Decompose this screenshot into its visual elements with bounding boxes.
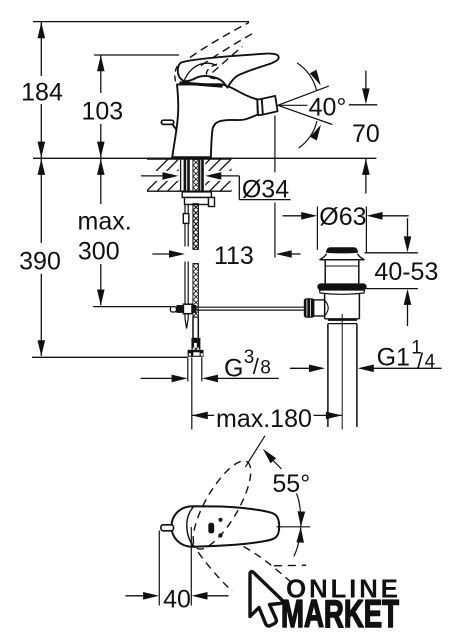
- dim 40-53 lower segment: [404, 289, 412, 326]
- 40° lower arc: [299, 121, 321, 148]
- G3/8 arrow right: [202, 375, 279, 383]
- dim max180 line left: [192, 412, 214, 420]
- 40° upper arc: [297, 63, 321, 90]
- raised lever dashed inner edge: [213, 47, 243, 73]
- mounting washer: [182, 192, 211, 198]
- supply tube lower: [193, 317, 198, 339]
- threaded shank upper: [193, 160, 199, 192]
- dim line 184 vertical: [38, 22, 46, 158]
- top view handle outline: [171, 506, 279, 547]
- svg-text:/: /: [253, 354, 260, 379]
- aerator extension line: [274, 116, 276, 258]
- faucet cartridge dome line: [184, 63, 217, 82]
- Ø34 arrow left: [141, 172, 178, 180]
- mounting bracket tab: [209, 198, 215, 207]
- svg-text:300: 300: [78, 238, 120, 266]
- top view handle mark: [208, 523, 214, 534]
- svg-text:70: 70: [352, 120, 380, 148]
- drain flange seal: [317, 283, 366, 290]
- svg-text:G: G: [224, 354, 243, 382]
- svg-text:113: 113: [214, 242, 254, 270]
- linkage rod junction: [183, 304, 192, 314]
- dim 70 lower segment: [362, 159, 370, 194]
- pop-up plug cap: [326, 247, 358, 253]
- mounting bracket: [185, 198, 209, 205]
- drain centerline: [341, 314, 343, 430]
- 55° arc double arrow: [296, 511, 305, 542]
- raised lever dashed back arc: [175, 66, 178, 85]
- faucet centerline extension: [191, 357, 193, 429]
- dim 40 extension left: [158, 531, 160, 606]
- Ø63 arrow right: [367, 212, 409, 220]
- dim line max300 bottom: [93, 306, 171, 308]
- handle gap line: [180, 83, 223, 87]
- svg-text:4: 4: [425, 352, 436, 373]
- svg-text:103: 103: [81, 98, 123, 126]
- Ø63 arrow left: [283, 212, 318, 220]
- dim line 390 vertical: [38, 159, 46, 357]
- dim line max300 vertical: [97, 159, 105, 306]
- svg-text:G1: G1: [377, 343, 410, 371]
- svg-text:40-53: 40-53: [374, 258, 438, 286]
- supply tube line b: [184, 160, 187, 192]
- supply tube line c: [187, 160, 190, 192]
- linkage rod right block: [192, 305, 196, 313]
- G3/8 extension right: [201, 357, 203, 381]
- countertop surface line: [33, 157, 376, 159]
- threaded shank mid: [193, 204, 199, 250]
- faucet body: [172, 84, 258, 157]
- dim 113 arrow right: [276, 250, 301, 258]
- Ø34 leader: [239, 176, 290, 200]
- dim 40 extension right: [190, 527, 192, 606]
- check valve fitting: [191, 338, 200, 350]
- raised lever dashed top edge: [190, 23, 249, 58]
- tailpipe collar: [328, 320, 357, 323]
- 55° arc lower: [294, 527, 301, 557]
- pop-up rod connector: [183, 214, 189, 224]
- top view pop-up pin: [161, 525, 174, 531]
- countertop hatching: [136, 158, 263, 191]
- drain flange lower band: [320, 290, 365, 294]
- supply tube line a: [180, 160, 182, 192]
- G3/8 extension left: [187, 357, 189, 381]
- 55° arc upper: [263, 449, 301, 527]
- pop-up rod upper: [185, 204, 188, 247]
- svg-text:MARKET: MARKET: [281, 593, 399, 636]
- dashed lever rotated down left edge: [191, 542, 233, 592]
- 40° upper ray: [278, 86, 329, 105]
- logo cursor icon: [250, 572, 282, 626]
- top view centerline right: [277, 526, 311, 528]
- G1-1/4 arrow left: [290, 365, 325, 373]
- linkage rod left block: [176, 305, 183, 313]
- dim 40-53 upper segment: [404, 218, 412, 252]
- label G3/8: [224, 347, 271, 382]
- pop-up rod lower: [185, 262, 188, 329]
- svg-text:max.: max.: [78, 207, 132, 235]
- svg-text:max.180: max.180: [216, 405, 312, 433]
- raised lever dashed mid edge: [201, 34, 253, 66]
- svg-text:40°: 40°: [309, 94, 347, 122]
- faucet lever handle: [178, 54, 279, 88]
- aerator cap: [262, 96, 278, 115]
- supply tube line e: [201, 160, 204, 192]
- G1-1/4 arrow right: [358, 365, 442, 373]
- aerator ring: [257, 99, 263, 115]
- Ø63 extension right: [365, 207, 367, 253]
- svg-text:/: /: [417, 349, 424, 374]
- countertop bottom line: [147, 190, 232, 192]
- dim ref line 103 (handle top): [94, 54, 179, 56]
- dim 40 arrow left: [125, 592, 159, 600]
- Ø63 extension left: [316, 207, 318, 250]
- top view handle dot upper: [218, 518, 222, 522]
- threaded shank lower: [193, 264, 199, 318]
- label G1 1/4: [377, 338, 436, 374]
- plug bell: [320, 254, 365, 260]
- svg-text:Ø63: Ø63: [319, 203, 366, 231]
- dim 70 upper segment: [362, 71, 370, 105]
- dim ref line top (tip of raised lever): [33, 21, 249, 23]
- 55° reference line: [245, 436, 265, 467]
- dashed lever rotated up: [183, 453, 262, 556]
- svg-text:390: 390: [19, 248, 61, 276]
- threaded shank below counter: [193, 191, 199, 249]
- dim max180 line right: [314, 412, 342, 420]
- dim 113 arrow left: [152, 250, 185, 258]
- dim 70 top line: [349, 104, 377, 106]
- 40° mid ray: [278, 104, 308, 106]
- drain neck: [325, 260, 359, 284]
- linkage rod end cap: [170, 307, 176, 312]
- waste body bottom: [325, 318, 360, 320]
- waste body side port: [313, 300, 328, 316]
- dim 40-53 top line: [365, 252, 418, 254]
- dashed lever rotated down right edge: [244, 547, 294, 585]
- tailpipe: [328, 324, 357, 427]
- dim 40 arrow right: [192, 592, 229, 600]
- G3/8 arrow left: [141, 375, 188, 383]
- 40° lower ray: [278, 105, 333, 124]
- svg-text:Ø34: Ø34: [242, 175, 289, 203]
- dashed lever rotated down end: [274, 564, 306, 567]
- dim line 103 vertical: [97, 55, 105, 158]
- pop-up linkage rod: [197, 307, 304, 310]
- top view handle dot lower: [218, 533, 222, 537]
- supply connection base: [188, 350, 204, 357]
- supply tube line d: [199, 160, 201, 192]
- top view cap seam: [187, 507, 194, 547]
- svg-text:184: 184: [21, 79, 63, 107]
- svg-text:55°: 55°: [272, 470, 310, 498]
- dim 40-53 bottom line: [363, 288, 418, 290]
- svg-text:40: 40: [163, 585, 191, 613]
- svg-text:8: 8: [260, 357, 271, 378]
- pop-up rod knob: [161, 120, 177, 130]
- raised lever dashed hook: [206, 64, 217, 79]
- waste body: [325, 293, 360, 318]
- Ø34 arrow right: [205, 172, 239, 180]
- dim line 390 bottom: [32, 356, 187, 358]
- Ø34 white channel: [141, 171, 231, 181]
- knurled nut: [304, 298, 315, 317]
